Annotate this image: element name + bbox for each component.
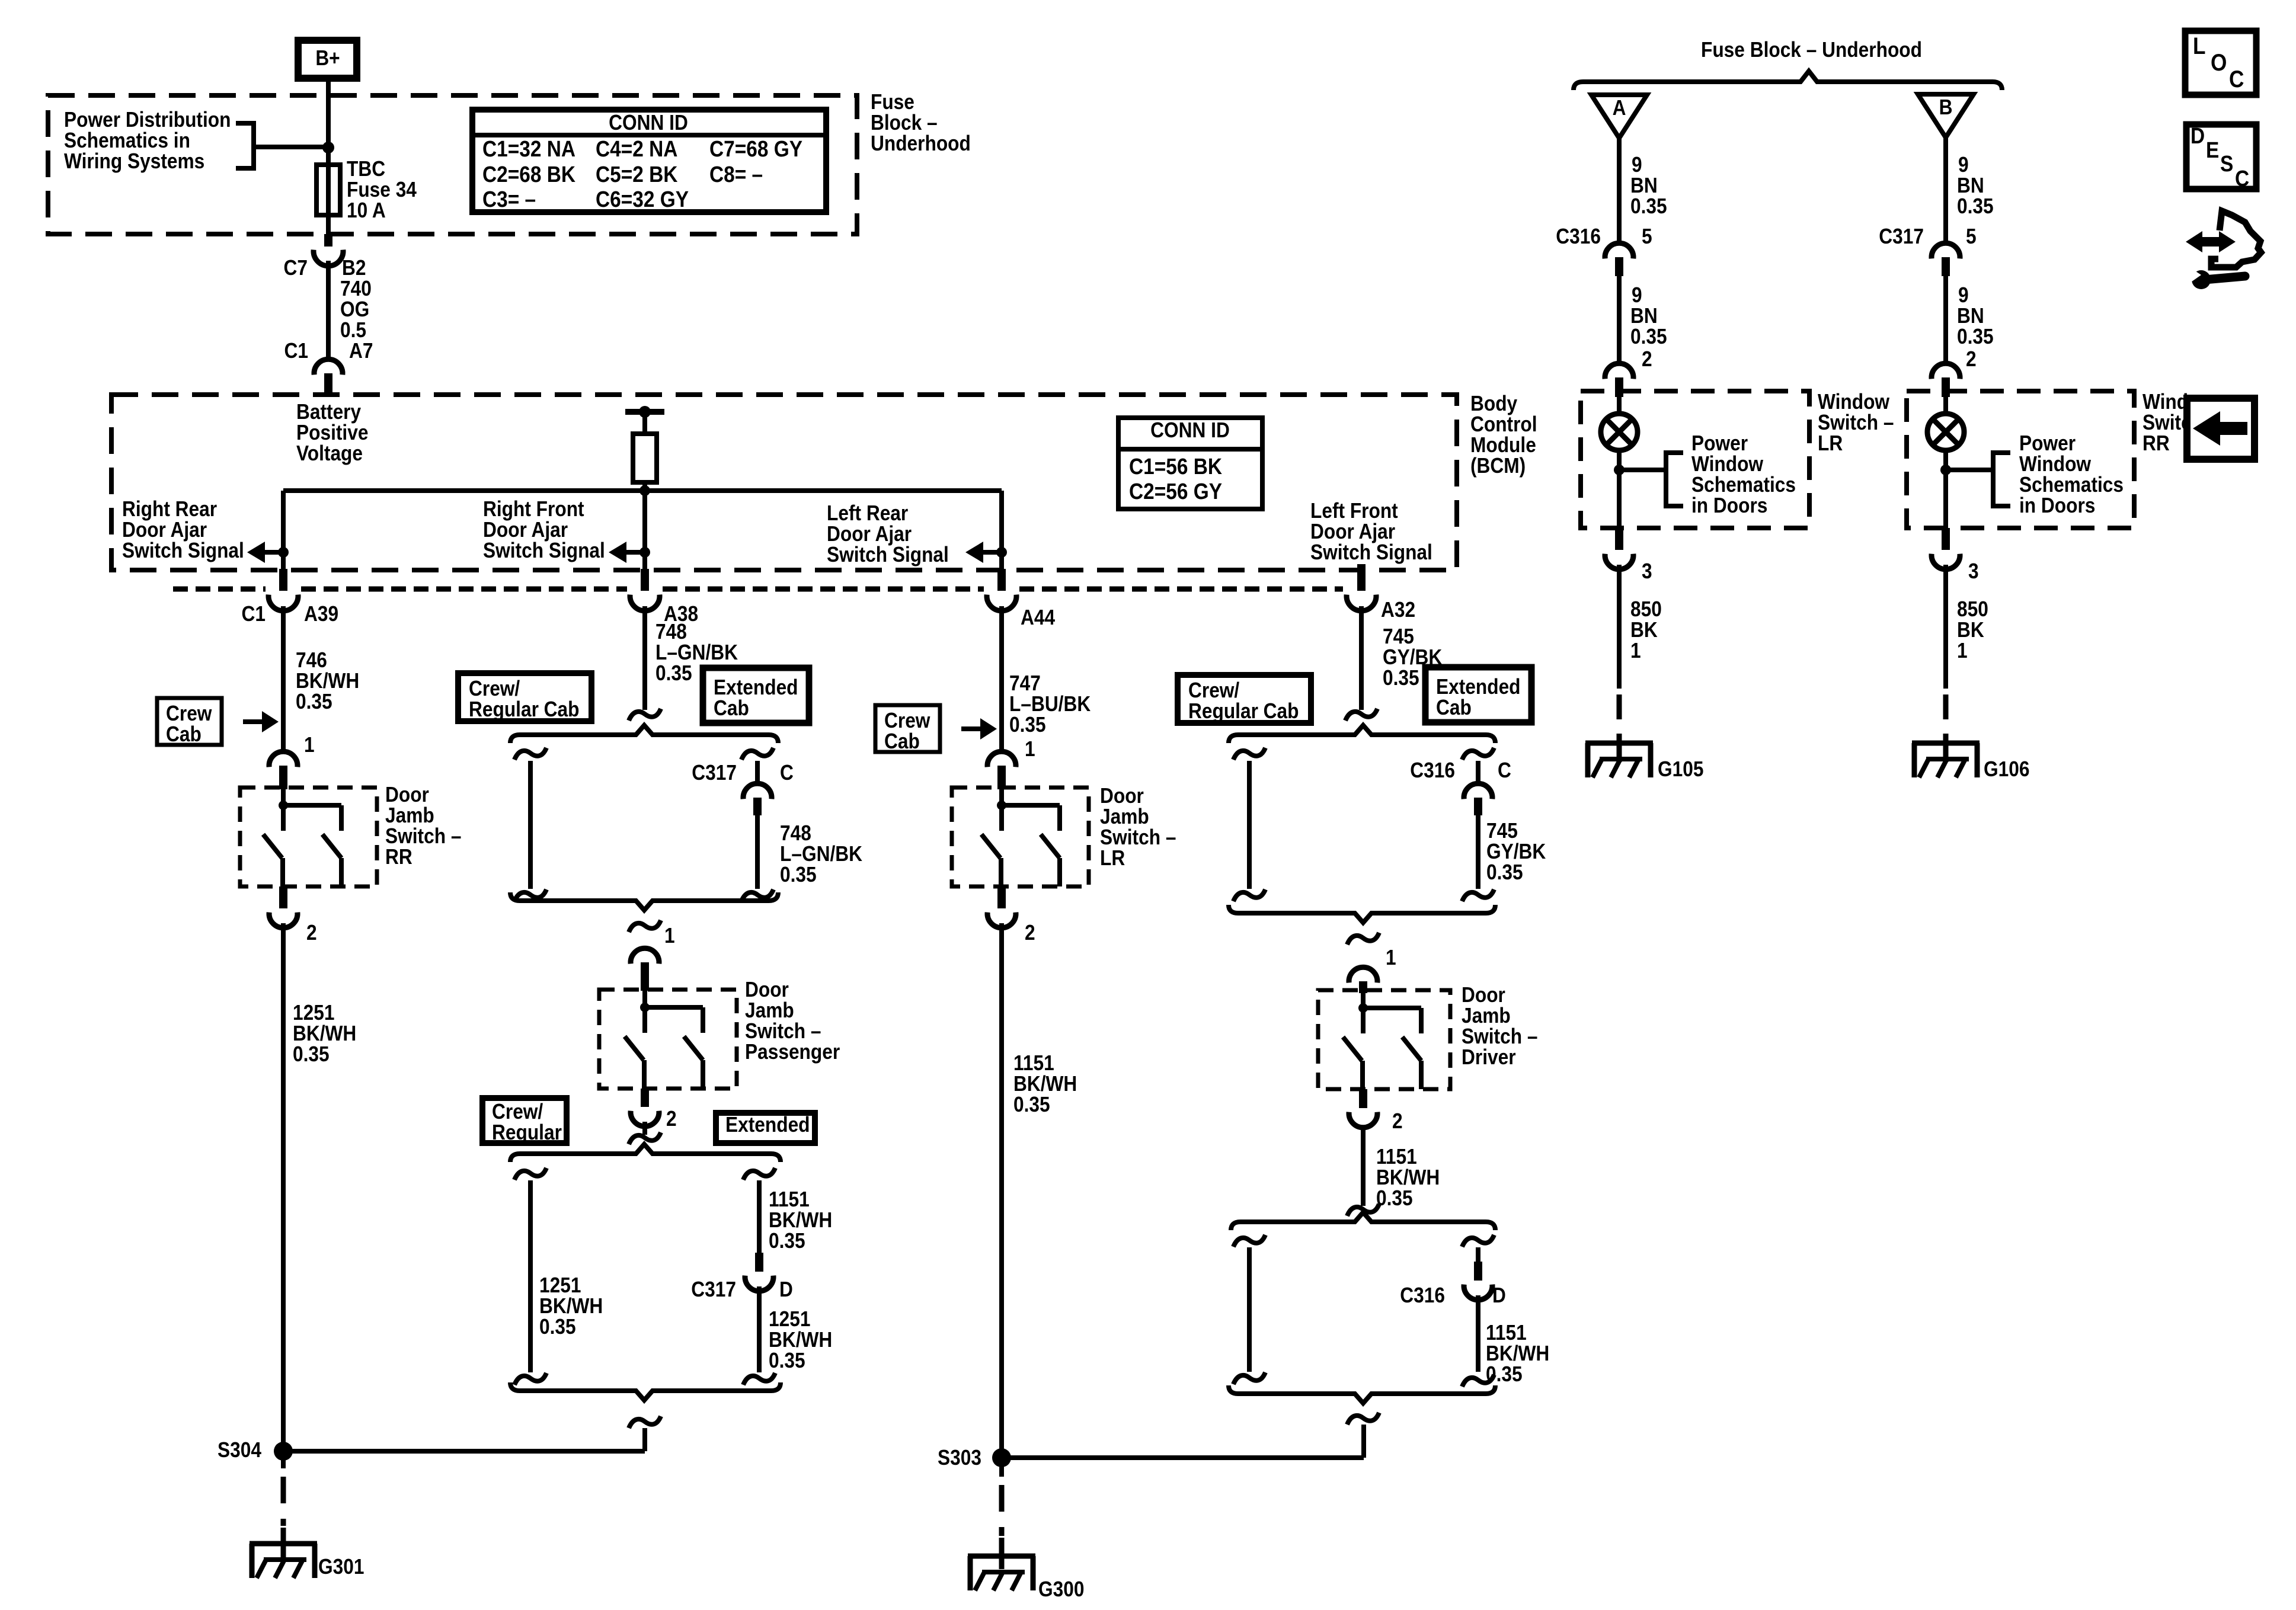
vehicle service icon xyxy=(2211,211,2261,267)
svg-text:C1=32 NA: C1=32 NA xyxy=(482,136,575,161)
wire below lamp RR xyxy=(1943,450,1948,528)
svg-text:3: 3 xyxy=(1642,559,1652,583)
B+ power symbol xyxy=(298,40,357,78)
wire 1151 BK/WH col3 xyxy=(999,923,1004,1458)
door jamb switch driver box xyxy=(1318,990,1450,1089)
svg-text:B: B xyxy=(1939,95,1953,119)
svg-text:C8= –: C8= – xyxy=(709,162,763,187)
ground lead G105 xyxy=(1617,694,1622,733)
svg-text:0.35: 0.35 xyxy=(1013,1093,1050,1116)
svg-text:C316: C316 xyxy=(1556,225,1601,248)
crew branch col4 lower xyxy=(1233,1235,1265,1247)
svg-text:C2=68 BK: C2=68 BK xyxy=(482,162,575,187)
bracket power window RR xyxy=(1993,453,2010,506)
Crew/Regular box col2 lower xyxy=(482,1098,567,1143)
svg-text:0.35: 0.35 xyxy=(296,690,332,713)
svg-text:Extended: Extended xyxy=(725,1113,810,1137)
triangle A xyxy=(1591,95,1647,138)
wire 850 BK RR xyxy=(1943,565,1948,689)
wire below passenger switch xyxy=(642,1122,647,1135)
crew branch wire col2 xyxy=(514,748,546,760)
lamp window RR xyxy=(1943,397,1948,414)
wire 746 BK/WH col1 xyxy=(281,606,286,753)
svg-text:C317: C317 xyxy=(692,761,737,785)
svg-text:Switch Signal: Switch Signal xyxy=(483,539,605,562)
lamp window LR xyxy=(1617,397,1622,414)
door jamb switch RR contacts xyxy=(279,801,288,810)
svg-text:D: D xyxy=(779,1278,793,1301)
svg-text:2: 2 xyxy=(1392,1109,1403,1133)
pin 2 door jamb LR xyxy=(997,886,1006,908)
svg-text:A: A xyxy=(1613,96,1626,120)
svg-text:0.35: 0.35 xyxy=(1376,1186,1413,1210)
merge brace col2 upper xyxy=(510,892,778,910)
svg-text:C6=32 GY: C6=32 GY xyxy=(596,187,689,212)
ground lead G301 xyxy=(281,1451,286,1468)
svg-text:Regular Cab: Regular Cab xyxy=(469,697,580,721)
Crew/Regular Cab box col4 xyxy=(1178,675,1311,723)
arrow right front xyxy=(639,547,650,558)
svg-text:C316: C316 xyxy=(1400,1283,1445,1307)
bus drops xyxy=(281,491,286,572)
connector C316 C xyxy=(1462,748,1494,760)
window switch RR box xyxy=(1907,391,2134,528)
internal T-bar and dot xyxy=(625,409,664,415)
svg-text:0.35: 0.35 xyxy=(1957,194,1994,218)
ground G105 xyxy=(1585,741,1653,746)
svg-text:G105: G105 xyxy=(1658,757,1703,781)
svg-text:S303: S303 xyxy=(938,1446,981,1470)
merge brace col4 lower xyxy=(1229,1385,1495,1403)
svg-text:in Doors: in Doors xyxy=(1691,494,1767,517)
svg-text:C317: C317 xyxy=(1879,225,1924,248)
svg-text:0.35: 0.35 xyxy=(1486,860,1523,884)
pin 2 driver xyxy=(1359,1089,1367,1108)
wire 747 L-BU/BK col3 xyxy=(999,606,1004,753)
Crew Cab box col1 xyxy=(157,698,222,745)
arrow left rear xyxy=(996,547,1007,558)
svg-text:Regular Cab: Regular Cab xyxy=(1188,699,1299,723)
left arrow in nav box xyxy=(2193,411,2247,446)
crew branch wire col4 xyxy=(1233,748,1265,760)
pin 3 window RR xyxy=(1942,528,1950,550)
split brace col2 upper xyxy=(510,725,778,743)
svg-text:3: 3 xyxy=(1968,559,1979,583)
svg-text:Passenger: Passenger xyxy=(745,1040,840,1064)
split brace col4 upper xyxy=(1229,725,1495,743)
Crew Cab box col3 xyxy=(875,705,940,752)
ground G301 xyxy=(250,1541,317,1547)
Extended Cab box col2 xyxy=(703,668,809,723)
svg-text:C: C xyxy=(2235,166,2249,191)
ground lead G106 xyxy=(1943,694,1949,733)
svg-text:1: 1 xyxy=(1957,639,1968,662)
svg-text:C5=2 BK: C5=2 BK xyxy=(596,162,678,187)
wire 9 BN col A xyxy=(1617,138,1622,244)
svg-text:1: 1 xyxy=(1025,737,1035,761)
svg-text:10 A: 10 A xyxy=(347,199,386,222)
door jamb switch driver contacts xyxy=(1358,1003,1368,1013)
svg-text:5: 5 xyxy=(1966,225,1977,248)
wire 9 BN col B xyxy=(1943,138,1948,244)
door jamb switch RR box xyxy=(240,788,377,886)
arrow crew cab col3 xyxy=(961,726,983,731)
split brace col2 lower xyxy=(510,1144,781,1162)
extended branch 1151 to C317 D xyxy=(743,1168,775,1180)
wire 9 BN col B lower xyxy=(1943,276,1948,364)
door jamb switch LR contacts xyxy=(997,801,1006,810)
svg-text:Voltage: Voltage xyxy=(296,441,363,465)
svg-text:G106: G106 xyxy=(1984,757,2029,781)
wire 850 BK LR xyxy=(1617,565,1622,689)
wire S303 to driver branch xyxy=(1002,1455,1364,1460)
wrench icon xyxy=(2192,270,2211,289)
svg-text:5: 5 xyxy=(1642,225,1652,248)
svg-text:C3= –: C3= – xyxy=(482,187,536,212)
triangle B xyxy=(1918,94,1974,137)
svg-text:0.35: 0.35 xyxy=(1630,194,1667,218)
svg-text:Switch Signal: Switch Signal xyxy=(122,539,244,562)
svg-text:0.35: 0.35 xyxy=(1957,325,1994,348)
C1 connector row dotted line xyxy=(173,587,266,592)
svg-text:A32: A32 xyxy=(1381,598,1415,622)
pin 2 passenger xyxy=(641,1089,649,1107)
svg-text:Switch Signal: Switch Signal xyxy=(1310,540,1432,564)
connector C7 B2 xyxy=(324,234,332,247)
DESC icon box xyxy=(2186,124,2256,189)
svg-text:C: C xyxy=(780,761,794,785)
ground lead G300 xyxy=(999,1458,1004,1477)
fuse block bracket xyxy=(1574,71,2002,90)
window switch LR box xyxy=(1581,391,1809,528)
wire S304 to passenger branch xyxy=(283,1449,645,1454)
svg-text:Regular: Regular xyxy=(492,1121,562,1144)
Extended box col2 lower xyxy=(716,1113,815,1143)
wire 740 OG 0.5 xyxy=(326,261,331,359)
svg-text:Cab: Cab xyxy=(714,696,749,720)
svg-text:0.35: 0.35 xyxy=(780,863,817,886)
wire 1251 extended branch xyxy=(757,1286,762,1372)
Crew/Regular Cab box col2 xyxy=(458,673,591,721)
svg-text:Driver: Driver xyxy=(1462,1045,1516,1069)
connector C316 D xyxy=(1474,1262,1482,1281)
svg-text:S: S xyxy=(2220,151,2233,176)
CONN ID table fuse block xyxy=(472,110,826,212)
wire to S304 xyxy=(629,1416,661,1428)
svg-text:1: 1 xyxy=(1630,639,1641,662)
svg-text:S304: S304 xyxy=(218,1438,261,1462)
svg-text:2: 2 xyxy=(1966,347,1977,371)
svg-text:C: C xyxy=(1498,758,1511,782)
wire break col2 xyxy=(629,709,661,721)
bracket power window LR xyxy=(1666,453,1683,506)
junction dot LR xyxy=(1614,465,1625,475)
svg-text:2: 2 xyxy=(1642,347,1652,371)
svg-text:0.35: 0.35 xyxy=(1383,666,1419,690)
svg-text:1: 1 xyxy=(1386,946,1396,969)
svg-text:Cab: Cab xyxy=(1436,696,1472,719)
svg-text:LR: LR xyxy=(1100,846,1125,870)
svg-text:CONN ID: CONN ID xyxy=(609,111,688,135)
svg-text:CONN ID: CONN ID xyxy=(1150,418,1230,442)
svg-text:0.35: 0.35 xyxy=(1630,325,1667,348)
pin 3 window LR xyxy=(1615,528,1623,550)
wire 1151 extended branch col4 xyxy=(1476,1295,1480,1372)
resistor in BCM xyxy=(642,412,647,434)
svg-text:O: O xyxy=(2211,49,2227,76)
connector A38 xyxy=(641,569,649,591)
svg-text:G300: G300 xyxy=(1038,1577,1084,1601)
connector A32 xyxy=(1357,564,1366,591)
wire 745 extended branch xyxy=(1476,815,1480,889)
merge brace col4 upper xyxy=(1229,905,1495,923)
connector C317 C xyxy=(741,748,773,760)
wire 748 L-GN/BK col2 xyxy=(642,606,647,710)
CONN ID table BCM xyxy=(1118,418,1262,509)
svg-text:0.35: 0.35 xyxy=(769,1349,805,1372)
svg-text:C1: C1 xyxy=(242,602,266,626)
svg-text:C316: C316 xyxy=(1410,758,1455,782)
svg-text:0.35: 0.35 xyxy=(655,661,692,685)
split brace col4 lower xyxy=(1231,1212,1495,1230)
wire B+ down to fuse xyxy=(326,82,331,236)
wire below lamp LR xyxy=(1617,450,1622,528)
pin 1 driver xyxy=(1347,933,1379,945)
svg-text:C: C xyxy=(2229,66,2244,92)
pin 1 passenger xyxy=(629,920,661,932)
svg-text:C1: C1 xyxy=(284,339,308,363)
connector C1 A39 xyxy=(279,569,287,591)
svg-text:C2=56 GY: C2=56 GY xyxy=(1129,479,1222,504)
svg-text:Switch Signal: Switch Signal xyxy=(827,543,949,566)
power distribution dashed box xyxy=(48,95,857,234)
wire to S303 xyxy=(1347,1413,1379,1425)
internal bus wire xyxy=(283,488,1002,493)
svg-text:0.35: 0.35 xyxy=(539,1315,576,1339)
ground G106 xyxy=(1912,741,1980,746)
svg-text:in Doors: in Doors xyxy=(2019,494,2095,517)
svg-text:1: 1 xyxy=(664,924,675,948)
svg-text:C7=68 GY: C7=68 GY xyxy=(709,136,802,161)
merge brace col2 lower xyxy=(510,1382,781,1400)
svg-text:RR: RR xyxy=(2142,431,2170,455)
pin 2 door jamb RR xyxy=(279,886,287,908)
splice S303 xyxy=(992,1448,1011,1467)
svg-text:A7: A7 xyxy=(349,339,373,363)
svg-text:C7: C7 xyxy=(284,256,308,280)
svg-text:LR: LR xyxy=(1818,431,1843,455)
svg-text:E: E xyxy=(2206,137,2219,162)
Extended Cab box col4 xyxy=(1425,667,1531,722)
fuse TBC Fuse 34 10A xyxy=(316,165,340,215)
svg-text:G301: G301 xyxy=(318,1555,364,1579)
svg-text:L: L xyxy=(2193,33,2206,59)
door jamb switch LR box xyxy=(952,788,1089,886)
bracket to power distribution text xyxy=(236,123,254,168)
svg-text:Fuse Block – Underhood: Fuse Block – Underhood xyxy=(1701,38,1922,62)
arrow right rear xyxy=(278,547,289,558)
svg-text:A39: A39 xyxy=(304,602,338,626)
extended branch col4 lower xyxy=(1462,1235,1494,1247)
svg-text:1: 1 xyxy=(304,733,315,757)
ground G300 xyxy=(968,1554,1035,1559)
connector A44 xyxy=(997,569,1006,591)
svg-text:2: 2 xyxy=(306,921,317,945)
svg-text:0.35: 0.35 xyxy=(1009,713,1046,737)
splice S304 xyxy=(274,1442,293,1461)
svg-text:C1=56 BK: C1=56 BK xyxy=(1129,454,1222,479)
junction dot at fuse top xyxy=(322,142,334,153)
door jamb switch passenger box xyxy=(599,990,737,1089)
wire 9 BN col A lower xyxy=(1617,276,1622,364)
svg-text:0.35: 0.35 xyxy=(293,1042,330,1066)
svg-text:(BCM): (BCM) xyxy=(1470,454,1526,478)
wire break col4 xyxy=(1345,709,1377,721)
svg-text:C317: C317 xyxy=(691,1278,736,1301)
svg-text:Cab: Cab xyxy=(884,729,920,753)
svg-text:Underhood: Underhood xyxy=(871,132,971,155)
connector C317 D xyxy=(755,1253,763,1272)
window switch RR nav box xyxy=(2187,398,2255,459)
wire 748 extended branch xyxy=(755,815,760,889)
wire 1151 col4 xyxy=(1361,1126,1366,1206)
svg-text:C4=2 NA: C4=2 NA xyxy=(596,136,677,161)
svg-text:0.35: 0.35 xyxy=(769,1229,805,1253)
svg-text:Wiring Systems: Wiring Systems xyxy=(64,149,204,173)
junction dot RR xyxy=(1940,465,1951,475)
svg-text:Cab: Cab xyxy=(166,722,202,746)
arrow crew cab col1 xyxy=(243,719,264,724)
svg-text:A44: A44 xyxy=(1021,606,1055,629)
LOC icon box xyxy=(2185,31,2256,95)
wire 1251 BK/WH col1 xyxy=(281,923,286,1451)
svg-text:RR: RR xyxy=(385,845,412,869)
svg-text:2: 2 xyxy=(1025,921,1035,945)
svg-text:B+: B+ xyxy=(315,46,340,70)
wire bracket to junction xyxy=(254,145,328,149)
BCM dashed box xyxy=(111,395,1457,570)
wire 745 GY/BK col4 xyxy=(1359,606,1364,710)
svg-text:D: D xyxy=(2191,123,2205,148)
crew branch wire col2 lower 1251 xyxy=(514,1168,546,1180)
svg-text:D: D xyxy=(1492,1283,1506,1307)
svg-text:2: 2 xyxy=(666,1107,677,1131)
door jamb switch passenger contacts xyxy=(640,1003,650,1012)
